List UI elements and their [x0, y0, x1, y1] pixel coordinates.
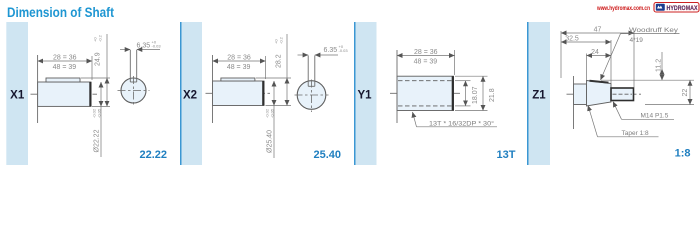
X2 key — [221, 78, 255, 81]
X1 key — [46, 78, 80, 82]
X2 centerline — [206, 92, 271, 94]
Z1 ext bottom horizontal — [645, 104, 694, 106]
X2 ext shaft bottom — [266, 105, 292, 107]
svg-text:24.9: 24.9 — [95, 52, 102, 66]
svg-text:-0.03: -0.03 — [152, 44, 162, 49]
X2 right extension — [265, 56, 267, 79]
X2 circle centerline horizontal — [295, 94, 329, 96]
svg-text:X2: X2 — [183, 90, 197, 102]
X2 ext key top — [256, 77, 291, 79]
svg-text:13T * 16/32DP * 30°: 13T * 16/32DP * 30° — [429, 119, 494, 127]
X1 face line — [37, 55, 39, 123]
svg-text:47: 47 — [594, 26, 602, 33]
svg-text:-0.05: -0.05 — [97, 108, 102, 118]
svg-text:22.22: 22.22 — [139, 149, 167, 161]
strip Y1 — [354, 22, 356, 165]
svg-text:4*19: 4*19 — [630, 37, 644, 44]
svg-text:www.hydromax.com.cn: www.hydromax.com.cn — [596, 5, 650, 12]
svg-text:13T: 13T — [497, 149, 516, 161]
X2 end face thick — [262, 81, 264, 106]
svg-text:11.2: 11.2 — [656, 59, 663, 72]
X2 end view circle — [297, 81, 326, 110]
X1 length dimension line — [38, 60, 92, 62]
strip X2 — [180, 22, 182, 165]
Y1 spline dashed top — [398, 80, 453, 82]
X1 height dim 24.9 line — [106, 78, 108, 106]
Z1 base collar — [574, 84, 587, 105]
svg-text:Ø22.22: Ø22.22 — [94, 129, 101, 152]
svg-text:48 = 39: 48 = 39 — [227, 64, 251, 71]
svg-text:Taper 1:8: Taper 1:8 — [622, 130, 649, 137]
strip Z1 — [527, 22, 529, 165]
X2 face line — [212, 55, 214, 123]
svg-text:48 = 39: 48 = 39 — [53, 64, 77, 71]
Y1 face line — [396, 50, 398, 123]
X1 keyway slot — [129, 50, 131, 82]
svg-text:32.5: 32.5 — [565, 35, 579, 42]
Z1 dim 22 — [689, 80, 691, 104]
strip X1 — [6, 22, 28, 165]
Z1 thread section — [611, 88, 634, 101]
X1 centerline — [31, 93, 98, 95]
Z1 ext taper right — [610, 40, 612, 83]
svg-text:HYDROMAX: HYDROMAX — [667, 5, 698, 12]
svg-text:48 = 39: 48 = 39 — [414, 58, 438, 65]
Y1 centerline — [390, 92, 462, 94]
svg-text:6.35: 6.35 — [324, 47, 338, 54]
Y1 dim 21.8 — [482, 76, 484, 110]
Z1 thread dashes — [613, 93, 633, 95]
Y1 end face thick — [452, 76, 454, 110]
X1 end view circle — [121, 78, 146, 103]
svg-text:X1: X1 — [10, 90, 25, 102]
X1 end face thick — [89, 82, 91, 106]
svg-text:M14 P1.5: M14 P1.5 — [641, 113, 669, 120]
svg-text:-0.03: -0.03 — [339, 48, 349, 53]
X1 keyway dim 6.35 — [120, 49, 130, 51]
Z1 centerline — [567, 93, 642, 95]
Y1 shaft body — [397, 76, 454, 110]
X2 keyway slot — [307, 56, 309, 87]
Z1 dim 32.5 — [561, 41, 611, 43]
svg-text:24: 24 — [591, 49, 599, 56]
svg-text:28 = 36: 28 = 36 — [53, 54, 77, 61]
Z1 face line — [573, 76, 575, 129]
X1 right extension of length dim — [91, 56, 93, 80]
svg-text:Z1: Z1 — [532, 90, 546, 102]
X1 ext key top — [81, 77, 110, 79]
svg-text:28.2: 28.2 — [276, 54, 283, 68]
X1 circle centerline vertical — [133, 76, 135, 107]
svg-text:28 = 36: 28 = 36 — [227, 54, 251, 61]
Z1 ext left — [560, 31, 562, 78]
X2 shaft body — [213, 81, 265, 106]
svg-text:-0.05: -0.05 — [270, 108, 275, 118]
Z1 ext 24 left — [586, 54, 588, 81]
X1 dia dim line — [100, 82, 102, 106]
svg-text:Y1: Y1 — [357, 90, 372, 102]
Z1 ext thread right — [633, 31, 635, 88]
Y1 length dimension line — [397, 55, 455, 57]
X1 circle centerline horizontal — [118, 90, 150, 92]
svg-text:Woodruff Key: Woodruff Key — [629, 27, 679, 34]
logo HYDROMAX — [654, 3, 699, 13]
X2 height dim 28.2 line — [286, 78, 288, 106]
svg-text:22: 22 — [682, 89, 689, 97]
svg-text:28 = 36: 28 = 36 — [414, 49, 438, 56]
X2 length dimension line — [213, 60, 266, 62]
Z1 dim 11.2 — [661, 52, 663, 69]
X2 keyway dim 6.35 — [298, 54, 309, 56]
Z1 ext key top horizontal — [601, 79, 694, 81]
svg-text:1:8: 1:8 — [675, 148, 691, 160]
X1 shaft body — [38, 82, 91, 106]
svg-text:25.40: 25.40 — [313, 149, 341, 161]
X1 ext shaft bottom — [92, 105, 110, 107]
Y1 dim 18.07 — [465, 81, 467, 106]
Y1 spline note leader — [413, 112, 417, 127]
svg-text:6.35: 6.35 — [137, 43, 151, 50]
Y1 right extension — [454, 50, 456, 75]
svg-text:-0.2: -0.2 — [98, 34, 103, 42]
Z1 dim 47 — [561, 32, 634, 34]
svg-text:21.8: 21.8 — [489, 88, 496, 102]
svg-text:-0.2: -0.2 — [279, 36, 284, 44]
svg-text:18.07: 18.07 — [472, 86, 479, 104]
Z1 taper segment — [587, 81, 612, 107]
X2 dia dim line — [273, 81, 275, 106]
X2 circle centerline vertical — [311, 80, 313, 113]
Z1 woodruff key top line — [590, 81, 609, 83]
Y1 spline dashed bottom — [398, 105, 453, 107]
svg-text:Ø25.40: Ø25.40 — [267, 130, 274, 153]
svg-text:Dimension of Shaft: Dimension of Shaft — [7, 4, 114, 20]
Y1 ext lines right — [455, 75, 488, 77]
Z1 dim 24 — [587, 55, 612, 57]
